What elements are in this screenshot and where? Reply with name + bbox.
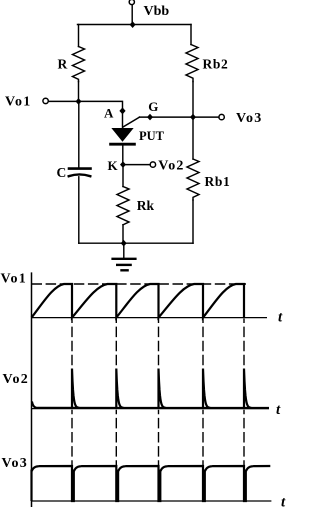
wire Rk to bus <box>122 225 124 243</box>
dashed peak line Vo1 <box>32 283 247 285</box>
capacitor C curved plate <box>69 174 91 176</box>
svg-text:Vo2: Vo2 <box>3 372 29 387</box>
resistor Rb2 <box>186 45 198 82</box>
svg-text:Vo3: Vo3 <box>236 111 262 126</box>
svg-text:Vbb: Vbb <box>144 4 170 19</box>
ground bar 1 <box>113 258 136 260</box>
node Vo3 junction <box>190 114 196 121</box>
transistor Q1 PUT triangle <box>112 129 132 142</box>
svg-text:R: R <box>58 57 68 72</box>
axis vertical common <box>31 272 33 507</box>
wire right branch upper <box>190 25 192 45</box>
svg-text:Vo1: Vo1 <box>1 272 27 287</box>
svg-text:PUT: PUT <box>139 129 165 143</box>
wire left branch upper <box>78 25 80 47</box>
svg-text:t: t <box>276 402 281 418</box>
terminal Vo3 <box>219 114 224 119</box>
wire gate diagonal <box>123 117 140 127</box>
svg-text:Vo3: Vo3 <box>2 456 28 471</box>
node top junction <box>130 21 136 28</box>
wire Vbb stub <box>131 5 133 25</box>
node A anode dot <box>119 107 125 114</box>
wire cap lower <box>78 177 80 243</box>
node G dot <box>147 114 153 121</box>
svg-text:G: G <box>148 99 158 114</box>
axis t3 baseline <box>32 500 272 502</box>
resistor R <box>73 47 85 82</box>
svg-text:Vo2: Vo2 <box>158 159 184 174</box>
terminal Vo2 <box>150 162 155 167</box>
wire cap upper <box>78 101 80 167</box>
dashed vertical gridlines seg2 <box>72 410 244 466</box>
node Vo1 junction <box>76 98 82 105</box>
terminal Vo1 <box>43 98 48 103</box>
wire Rb1 to bus <box>192 200 194 243</box>
wire cathode to K node <box>122 146 124 165</box>
svg-text:Vo1: Vo1 <box>5 95 31 110</box>
svg-text:t: t <box>281 495 286 511</box>
wire K to Vo2 <box>123 164 150 166</box>
ground bar 3 <box>122 269 128 271</box>
resistor Rk <box>117 187 129 225</box>
wire anode top <box>79 101 123 128</box>
wire gate horizontal to Vo3 <box>140 116 219 118</box>
node K dot <box>120 161 126 168</box>
svg-text:A: A <box>104 105 114 120</box>
capacitor C top plate <box>69 167 91 170</box>
waveform plot axes <box>32 272 272 507</box>
ground bar 2 <box>117 264 130 266</box>
wire top bus <box>78 24 192 26</box>
svg-text:Rk: Rk <box>137 198 155 213</box>
svg-text:t: t <box>278 310 283 326</box>
transistor Q1 PUT cathode bar <box>111 143 135 146</box>
svg-text:Rb1: Rb1 <box>205 174 231 189</box>
axis t2 baseline <box>32 408 270 410</box>
wire Vo3 node to Rb1 <box>192 117 194 159</box>
waveform Vo3 <box>32 466 271 501</box>
wire R to Vo1 node <box>78 82 80 102</box>
resistor Rb1 <box>187 159 199 200</box>
wire K to Rk <box>122 165 124 187</box>
svg-text:C: C <box>57 165 67 180</box>
wire Rb2 to Vo3 node <box>192 82 194 118</box>
svg-text:Rb2: Rb2 <box>203 57 229 72</box>
svg-text:K: K <box>108 158 119 173</box>
dashed vertical gridlines seg1 <box>72 319 244 367</box>
waveform Vo1 sawtooth <box>32 284 245 318</box>
node bottom junction <box>121 240 127 247</box>
ground stub <box>123 243 125 258</box>
axis t1 baseline <box>32 317 268 319</box>
Vbb terminal <box>129 0 134 5</box>
wire bottom bus <box>79 242 193 244</box>
wire Vo1 to node <box>48 100 78 102</box>
waveform Vo2 spikes <box>32 369 269 409</box>
